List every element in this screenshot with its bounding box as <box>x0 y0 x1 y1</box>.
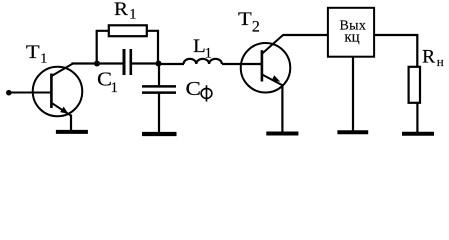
label Cf <box>186 78 212 102</box>
capacitor Cf branch wire lower <box>158 93 160 132</box>
svg-text:1: 1 <box>129 7 136 23</box>
wire node B to L1 <box>159 63 185 65</box>
capacitor Cf branch wire upper <box>158 64 160 87</box>
svg-text:R: R <box>114 0 128 20</box>
svg-text:1: 1 <box>40 52 47 67</box>
ground under block <box>337 130 368 134</box>
transistor T1 <box>33 64 83 116</box>
svg-text:н: н <box>437 54 444 69</box>
svg-text:C: C <box>186 78 201 100</box>
label T2 <box>238 9 260 35</box>
wire node A to C1 <box>97 62 123 64</box>
resistor Rn <box>409 67 420 103</box>
input terminal node <box>6 90 12 96</box>
wire Rn to ground <box>416 104 418 132</box>
wire L1 to T2 base <box>222 63 261 65</box>
ground under T2 <box>266 132 298 136</box>
svg-text:T: T <box>238 9 252 30</box>
svg-text:кц: кц <box>344 29 359 45</box>
label Rn <box>422 47 444 69</box>
transistor T2 <box>241 35 291 93</box>
wire T2 collector to output block <box>283 34 327 36</box>
svg-text:1: 1 <box>205 45 212 61</box>
label T1 <box>26 42 47 67</box>
wire C1 to node B <box>132 62 159 64</box>
output block Vykh kts <box>328 8 374 57</box>
svg-text:2: 2 <box>252 18 260 35</box>
capacitor C1 <box>124 49 131 75</box>
wire block right to Rn <box>374 35 417 66</box>
node A junction <box>94 61 100 67</box>
wire T2 emitter to ground <box>281 85 283 132</box>
wire input to T1 base <box>10 92 51 94</box>
resistor R1 right branch wire <box>147 31 158 64</box>
svg-text:R: R <box>422 47 435 68</box>
inductor L1 <box>184 59 222 64</box>
wire block bottom to ground <box>352 58 354 132</box>
label C1 <box>97 68 118 96</box>
label R1 <box>114 0 137 23</box>
label L1 <box>193 36 212 61</box>
wire T1 collector to node A <box>72 62 98 64</box>
ground under Rn <box>402 132 434 136</box>
ground under T1 <box>56 130 88 134</box>
svg-text:T: T <box>26 42 40 63</box>
resistor R1 left branch wire <box>97 31 108 64</box>
label Vykh kts <box>339 19 366 46</box>
node B junction <box>156 61 162 67</box>
capacitor Cf <box>142 86 176 92</box>
ground under Cf <box>142 132 177 136</box>
svg-text:1: 1 <box>111 80 118 96</box>
wire T1 emitter to ground <box>70 115 72 132</box>
resistor R1 <box>109 25 147 36</box>
